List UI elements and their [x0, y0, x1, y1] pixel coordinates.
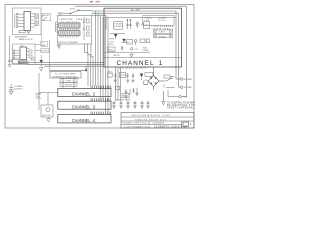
svg-text:IN: IN: [42, 20, 45, 22]
svg-text:LOUDNESS: LOUDNESS: [152, 123, 165, 125]
svg-text:REMOTE RELAY BOX: REMOTE RELAY BOX: [135, 118, 167, 121]
svg-text:SPEAKER TERMINALS: SPEAKER TERMINALS: [53, 75, 80, 78]
svg-text:SCHEMATIC AUDIO 1 OF: SCHEMATIC AUDIO 1 OF: [154, 126, 188, 129]
svg-text:FILE PREAMP.SCH: FILE PREAMP.SCH: [124, 126, 150, 129]
svg-text:+15V REGULATED SUPPLY: +15V REGULATED SUPPLY: [119, 66, 149, 69]
svg-text:AMP: AMP: [41, 44, 46, 47]
svg-text:FILTER CAPS: FILTER CAPS: [116, 99, 131, 102]
svg-text:RIAA EQ: RIAA EQ: [76, 18, 87, 21]
svg-text:DETECT: DETECT: [115, 26, 125, 28]
svg-text:FUSE: FUSE: [143, 50, 149, 52]
svg-text:AUDIO RIGHT: AUDIO RIGHT: [15, 35, 28, 38]
svg-text:SW1: SW1: [70, 9, 76, 11]
svg-text:CHANNEL: CHANNEL: [72, 118, 91, 123]
svg-text:AC LINE: AC LINE: [131, 9, 140, 12]
svg-text:SUPPLY: SUPPLY: [14, 89, 23, 91]
svg-text:CALIFORNIA AUDIO CORP.: CALIFORNIA AUDIO CORP.: [131, 114, 171, 117]
svg-text:REG: REG: [108, 49, 113, 51]
svg-text:LM387 PRE: LM387 PRE: [60, 19, 74, 21]
svg-text:7815: 7815: [107, 71, 113, 73]
svg-text:BASS +12V IN: BASS +12V IN: [19, 38, 33, 41]
svg-text:CHANNEL: CHANNEL: [72, 104, 91, 109]
svg-text:MOTOR: MOTOR: [43, 115, 52, 117]
svg-text:L+R: L+R: [20, 62, 25, 64]
svg-text:115VAC: 115VAC: [184, 86, 192, 89]
svg-text:PHONO PREAMP: PHONO PREAMP: [58, 41, 79, 44]
svg-text:RIGHT: RIGHT: [159, 36, 167, 38]
svg-text:MUTE: MUTE: [41, 51, 48, 53]
svg-text:SAFETY APPROVAL.: SAFETY APPROVAL.: [167, 107, 195, 110]
svg-text:7915: 7915: [120, 75, 126, 77]
svg-text:LEFT: LEFT: [160, 32, 166, 34]
svg-text:TO POWER AMP: TO POWER AMP: [55, 72, 77, 75]
svg-text:TRIG: TRIG: [109, 39, 115, 41]
svg-text:REG: REG: [123, 96, 128, 98]
svg-text:CTRL: CTRL: [36, 98, 43, 100]
svg-text:+12V: +12V: [144, 20, 150, 22]
svg-text:CHANNEL: CHANNEL: [72, 92, 91, 97]
svg-text:230VAC: 230VAC: [184, 78, 193, 81]
svg-text:DC IN: DC IN: [159, 20, 166, 22]
svg-text:1: 1: [159, 60, 163, 67]
svg-text:CHANNEL: CHANNEL: [117, 60, 156, 67]
svg-text:GND: GND: [183, 97, 188, 99]
svg-text:DRAWN CHECKED: DRAWN CHECKED: [122, 122, 147, 125]
svg-text:RIGHT: RIGHT: [65, 85, 73, 87]
svg-text:AUD: AUD: [31, 59, 36, 62]
svg-text:MUTE: MUTE: [114, 55, 121, 57]
svg-text:BUS: BUS: [109, 44, 114, 46]
